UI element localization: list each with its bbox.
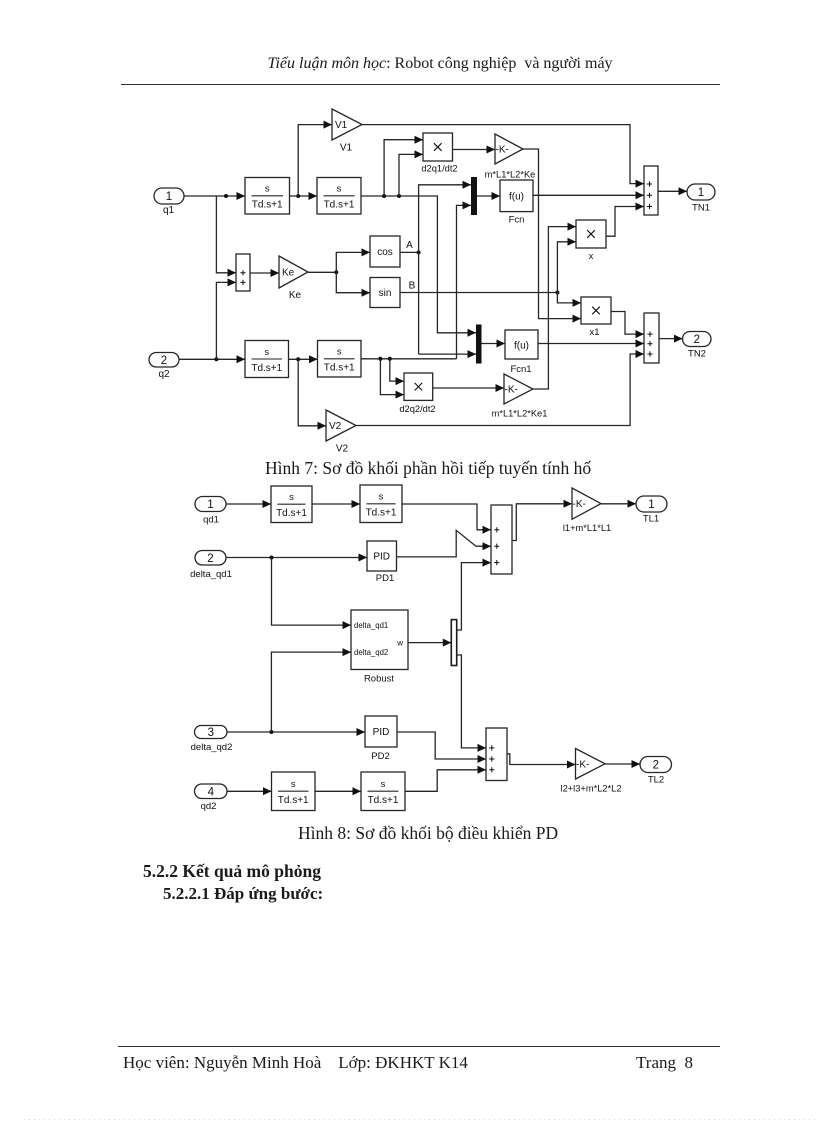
svg-text:delta_qd1: delta_qd1 <box>354 621 388 630</box>
svg-text:V2: V2 <box>329 421 342 432</box>
svg-text:2: 2 <box>161 355 167 367</box>
svg-text:TN1: TN1 <box>692 203 710 214</box>
svg-text:sin: sin <box>379 288 392 299</box>
svg-text:l1+m*L1*L1: l1+m*L1*L1 <box>563 523 611 533</box>
svg-text:Ke: Ke <box>289 290 302 301</box>
svg-text:delta_qd1: delta_qd1 <box>190 569 232 580</box>
svg-text:delta_qd2: delta_qd2 <box>191 742 233 753</box>
svg-text:1: 1 <box>698 187 704 199</box>
svg-text:Ke: Ke <box>282 268 295 279</box>
svg-text:s: s <box>381 779 386 790</box>
svg-text:l2+l3+m*L2*L2: l2+l3+m*L2*L2 <box>561 784 622 794</box>
svg-text:m*L1*L2*Ke1: m*L1*L2*Ke1 <box>492 409 548 419</box>
svg-text:TL1: TL1 <box>643 514 659 525</box>
svg-text:Td.s+1: Td.s+1 <box>368 795 399 806</box>
svg-text:Td.s+1: Td.s+1 <box>251 363 282 374</box>
svg-text:s: s <box>379 492 384 503</box>
svg-text:1: 1 <box>207 499 213 511</box>
svg-text:B: B <box>409 281 416 292</box>
svg-text:2: 2 <box>694 334 700 346</box>
svg-text:Td.s+1: Td.s+1 <box>324 200 355 211</box>
svg-text:s: s <box>265 184 270 195</box>
svg-text:4: 4 <box>208 787 215 799</box>
svg-text:x: x <box>589 251 594 262</box>
svg-text:s: s <box>291 779 296 790</box>
svg-text:TL2: TL2 <box>648 775 664 786</box>
svg-text:d2q1/dt2: d2q1/dt2 <box>421 164 457 174</box>
svg-text:f(u): f(u) <box>514 341 529 352</box>
svg-text:Td.s+1: Td.s+1 <box>366 508 397 519</box>
svg-text:V1: V1 <box>340 143 353 154</box>
svg-text:A: A <box>406 240 413 251</box>
svg-text:-K-: -K- <box>505 385 518 396</box>
svg-text:PD1: PD1 <box>376 573 394 584</box>
svg-text:Fcn: Fcn <box>509 215 525 226</box>
svg-text:PID: PID <box>373 727 390 738</box>
svg-text:m*L1*L2*Ke: m*L1*L2*Ke <box>485 170 536 180</box>
svg-text:f(u): f(u) <box>509 192 524 203</box>
svg-text:d2q2/dt2: d2q2/dt2 <box>399 404 435 414</box>
svg-text:Fcn1: Fcn1 <box>510 364 531 375</box>
svg-text:delta_qd2: delta_qd2 <box>354 648 388 657</box>
svg-text:s: s <box>337 184 342 195</box>
svg-text:q2: q2 <box>158 369 170 380</box>
svg-text:Td.s+1: Td.s+1 <box>278 795 309 806</box>
svg-text:PD2: PD2 <box>371 751 389 762</box>
svg-text:q1: q1 <box>163 205 175 216</box>
svg-text:Robust: Robust <box>364 674 394 685</box>
svg-text:-K-: -K- <box>573 499 586 510</box>
svg-text:TN2: TN2 <box>688 349 706 360</box>
svg-text:Td.s+1: Td.s+1 <box>252 200 283 211</box>
svg-text:Td.s+1: Td.s+1 <box>276 508 307 519</box>
svg-text:2: 2 <box>207 553 213 565</box>
svg-text:s: s <box>337 347 342 358</box>
svg-text:1: 1 <box>648 499 654 511</box>
svg-text:s: s <box>289 492 294 503</box>
svg-text:w: w <box>396 639 403 648</box>
svg-text:3: 3 <box>208 727 214 739</box>
svg-text:2: 2 <box>653 760 659 772</box>
svg-text:s: s <box>264 347 269 358</box>
svg-text:PID: PID <box>373 552 390 563</box>
svg-text:qd2: qd2 <box>201 801 217 812</box>
svg-text:V1: V1 <box>335 120 348 131</box>
svg-text:-K-: -K- <box>576 759 589 770</box>
svg-text:-K-: -K- <box>496 145 509 156</box>
svg-text:qd1: qd1 <box>203 515 219 526</box>
svg-text:1: 1 <box>166 191 172 203</box>
svg-text:x1: x1 <box>589 327 599 338</box>
svg-text:cos: cos <box>377 247 393 258</box>
svg-text:Td.s+1: Td.s+1 <box>324 363 355 374</box>
svg-text:V2: V2 <box>336 444 349 455</box>
